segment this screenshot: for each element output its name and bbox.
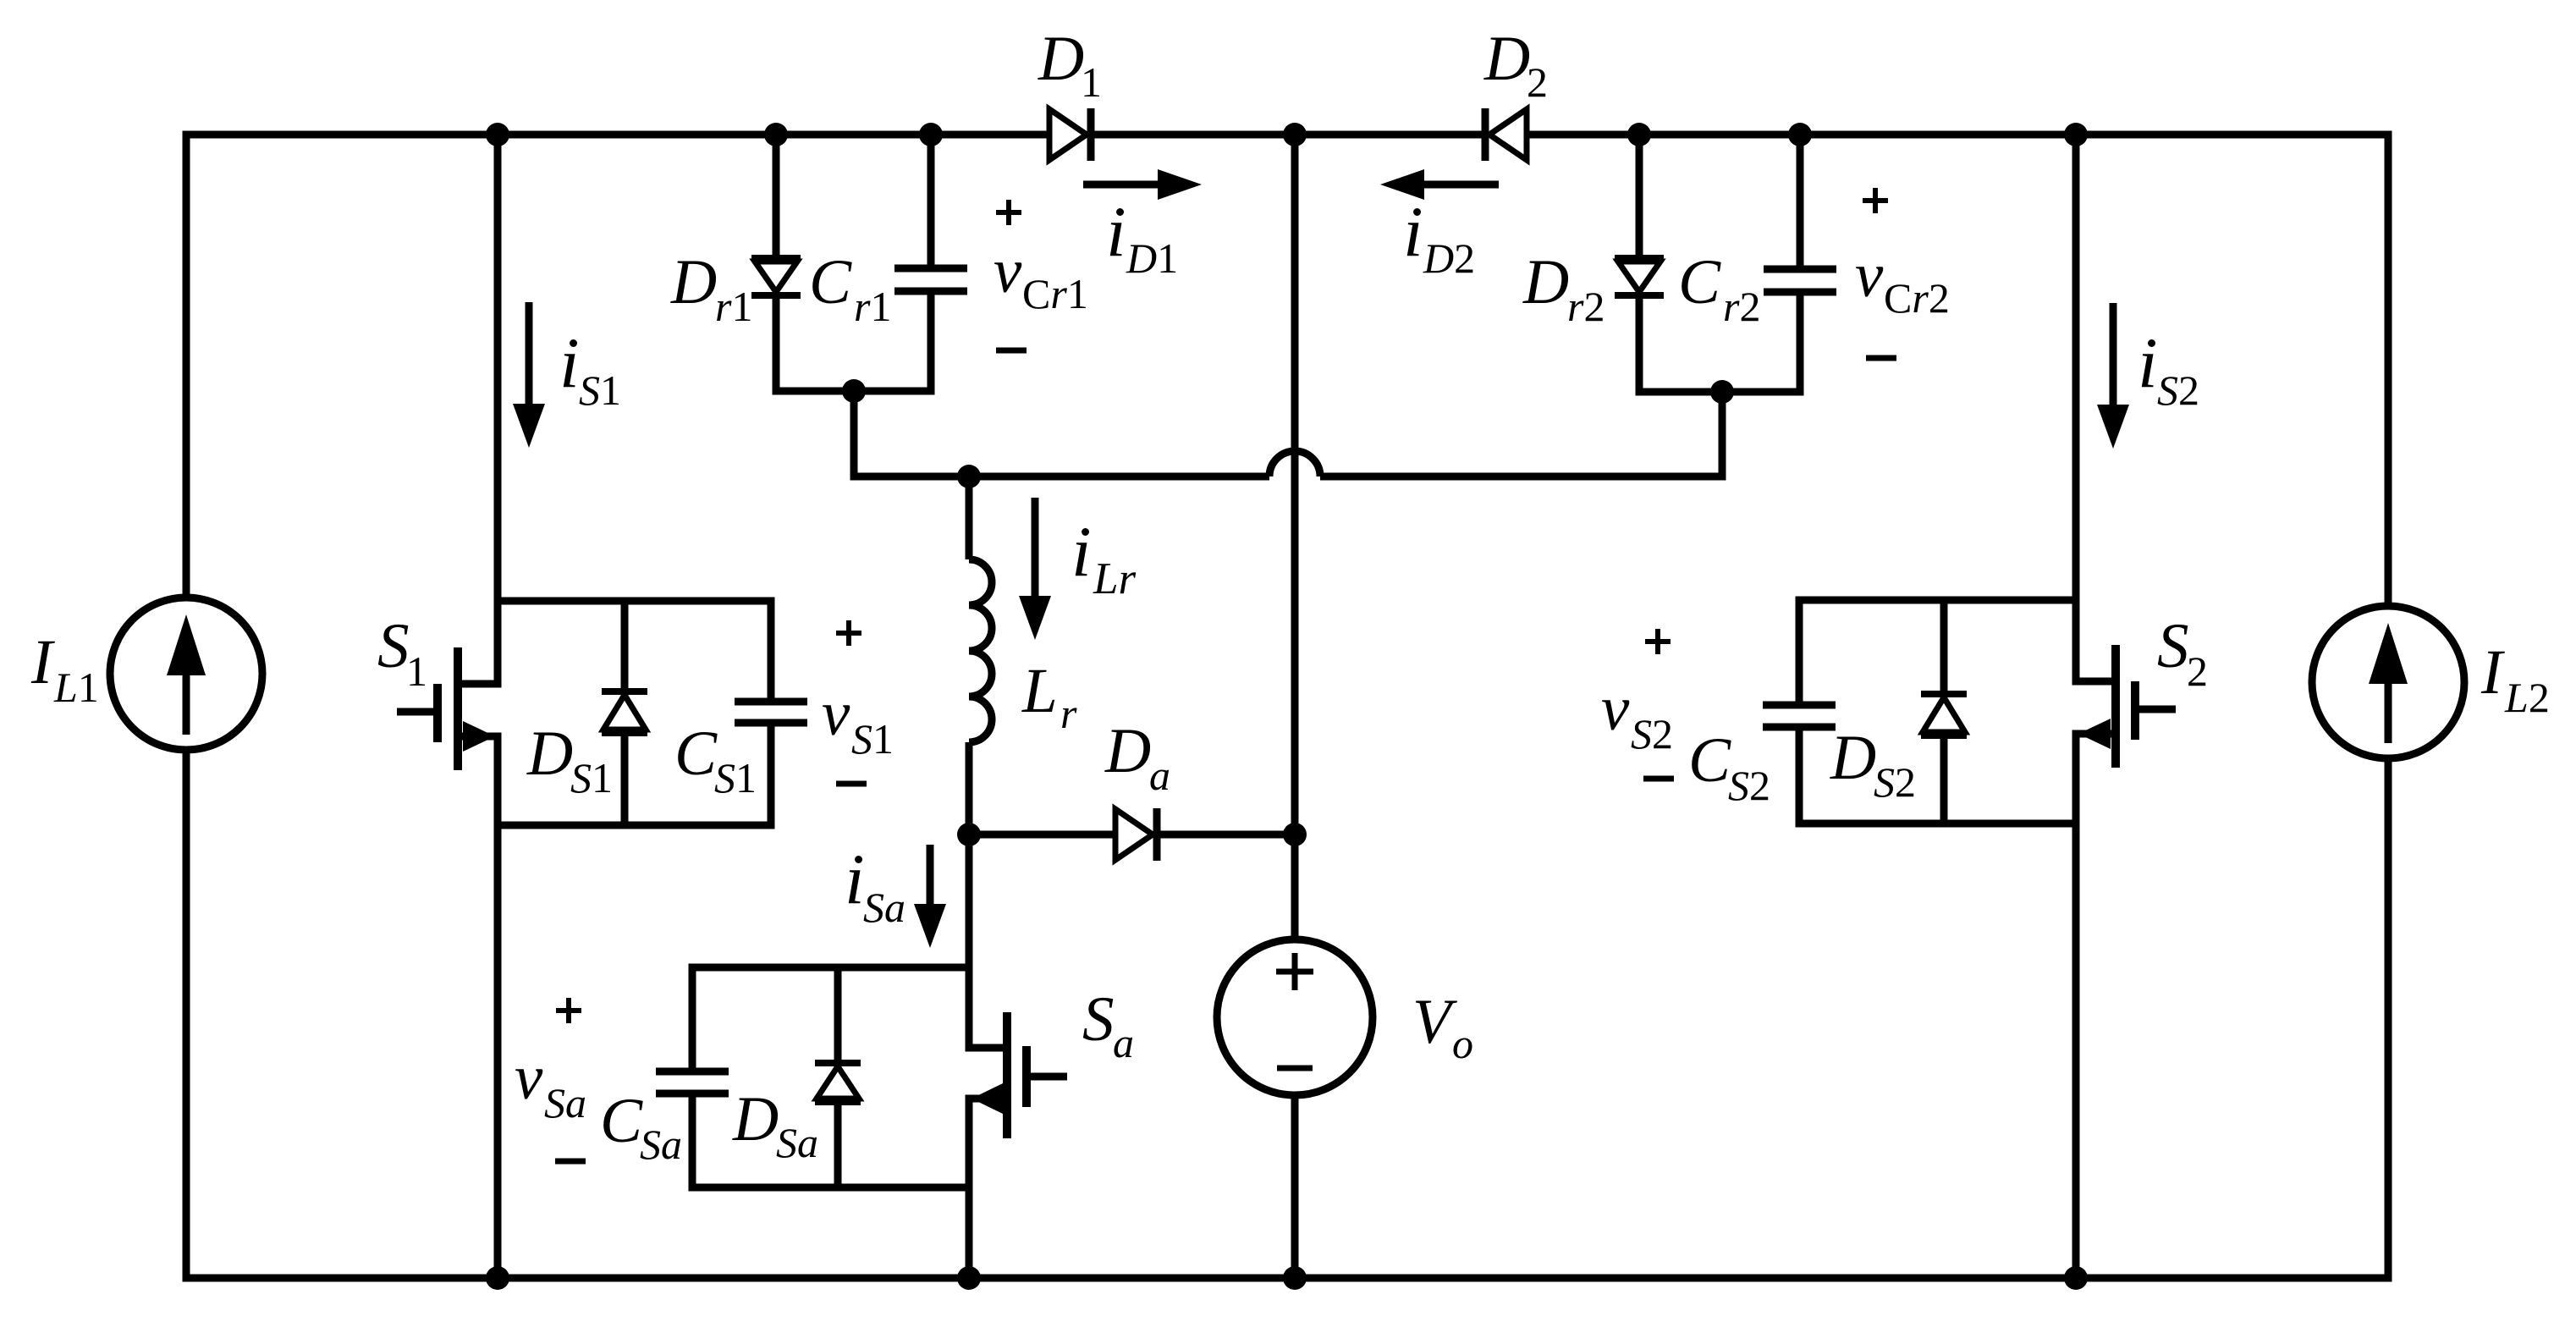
wire hop over center <box>1269 451 1320 476</box>
svg-text:D: D <box>1483 24 1530 94</box>
node Dr1 top <box>764 123 788 146</box>
svg-text:D: D <box>1830 723 1876 793</box>
wire DSa upper lead <box>834 967 842 1063</box>
node Dr2 top <box>1627 123 1651 146</box>
arrow inside I_L2 <box>2385 684 2392 743</box>
svg-text:r2: r2 <box>1723 283 1760 330</box>
wire Cr1 upper lead <box>927 135 935 268</box>
svg-text:i: i <box>1106 192 1126 272</box>
svg-text:i: i <box>2138 323 2158 403</box>
svg-text:i: i <box>559 323 580 403</box>
label vS1 minus <box>836 781 867 787</box>
wire Da anode <box>969 831 1115 839</box>
svg-text:r1: r1 <box>715 283 752 330</box>
diode Dr1 <box>751 255 801 262</box>
svg-text:r2: r2 <box>1567 283 1604 330</box>
wire Dr2 lower lead + bottom <box>1639 295 1722 392</box>
wire mid horizontal left <box>969 473 1269 481</box>
current source I_L2 <box>2312 606 2464 758</box>
wire top rail right + right edge <box>1527 135 2388 606</box>
wire CS1 lower lead + box bottom <box>498 723 771 825</box>
svg-text:1: 1 <box>1081 58 1102 106</box>
wire Sa drain rail <box>969 834 1007 1048</box>
label vS2 plus <box>1645 639 1671 644</box>
svg-text:S1: S1 <box>579 366 621 414</box>
node Da left junction <box>957 823 981 846</box>
inductor Lr <box>969 559 992 742</box>
svg-text:C: C <box>1688 725 1731 796</box>
capacitor CS2 <box>1763 702 1836 709</box>
svg-text:C: C <box>809 247 852 317</box>
svg-text:L: L <box>1021 656 1058 726</box>
wire bottom rail + outer returns <box>186 750 2388 1278</box>
svg-text:i: i <box>1071 512 1092 592</box>
arrow i_Lr <box>1032 498 1039 596</box>
svg-text:r: r <box>1060 690 1077 737</box>
transistor S1 (MOSFET) <box>454 647 462 770</box>
diode D1 <box>1049 109 1087 160</box>
svg-text:S1: S1 <box>851 715 894 763</box>
svg-text:D: D <box>1104 716 1151 786</box>
node S2 bottom <box>2064 1266 2088 1290</box>
svg-text:C: C <box>674 719 718 789</box>
wire DS2 upper lead <box>1940 600 1948 694</box>
Vo minus <box>1277 1066 1313 1071</box>
svg-text:2: 2 <box>2187 647 2208 695</box>
label vSa minus <box>555 1159 586 1165</box>
svg-text:D2: D2 <box>1423 234 1475 282</box>
svg-text:D: D <box>1038 24 1084 94</box>
label vCr2 minus <box>1866 355 1896 361</box>
svg-text:Sa: Sa <box>863 884 905 931</box>
node center top <box>1283 123 1307 146</box>
svg-text:i: i <box>1403 192 1423 272</box>
svg-text:r1: r1 <box>854 283 891 330</box>
wire Sa source rail <box>969 1099 1007 1278</box>
wire Dr2 upper lead <box>1636 135 1643 258</box>
svg-text:D1: D1 <box>1126 234 1178 282</box>
arrow inside I_L1 <box>183 675 190 735</box>
wire CS2/DS2 box top + CS2 upper lead <box>1799 600 2076 705</box>
capacitor Cr2 <box>1764 266 1836 273</box>
diode DS1 <box>602 688 647 695</box>
transistor S2 (MOSFET) <box>2111 645 2120 768</box>
svg-text:D: D <box>732 1084 779 1154</box>
diode Da <box>1115 809 1153 860</box>
wire S1 source rail <box>458 736 498 1278</box>
svg-text:S: S <box>2157 611 2189 681</box>
svg-text:v: v <box>1855 240 1884 311</box>
diode Dr2 <box>1615 255 1664 262</box>
diode DSa <box>815 1060 861 1066</box>
svg-text:S1: S1 <box>570 754 613 801</box>
svg-text:S: S <box>1082 984 1115 1055</box>
current source I_L1 <box>110 598 262 750</box>
svg-text:S2: S2 <box>1631 710 1673 757</box>
svg-text:S2: S2 <box>1874 758 1916 806</box>
arrow i_D2 <box>1424 181 1499 189</box>
diode D2 <box>1489 109 1527 160</box>
svg-text:Lr: Lr <box>1093 554 1136 603</box>
svg-text:1: 1 <box>406 647 427 695</box>
svg-text:i: i <box>845 840 865 919</box>
capacitor Cr1 <box>894 265 967 273</box>
wire DS1 upper lead <box>621 601 629 691</box>
arrow i_Sa <box>927 845 934 904</box>
svg-text:2: 2 <box>1527 58 1548 106</box>
node Da right junction <box>1283 823 1307 846</box>
label vCr1 plus <box>996 210 1021 215</box>
node S1 top <box>486 123 509 146</box>
svg-text:v: v <box>1601 674 1630 744</box>
wire Dr1 upper lead <box>773 135 780 258</box>
wire junction drop right <box>1719 392 1726 476</box>
svg-text:D: D <box>526 719 573 789</box>
diode DS2 <box>1921 691 1967 697</box>
svg-text:L1: L1 <box>53 664 99 711</box>
node S2 top <box>2064 123 2088 146</box>
wire DSa lower lead <box>834 1102 842 1187</box>
label vS1 plus <box>836 631 861 636</box>
svg-text:Sa: Sa <box>776 1119 818 1166</box>
wire S2 drain rail <box>2076 135 2116 681</box>
wire top rail middle <box>1092 131 1485 139</box>
svg-text:Cr2: Cr2 <box>1884 274 1950 322</box>
svg-text:a: a <box>1113 1019 1134 1066</box>
wire Da cathode <box>1157 831 1295 839</box>
wire CS2 lower lead + box bottom <box>1799 727 2076 823</box>
node Dr1/Cr1 junction <box>842 379 866 403</box>
svg-text:S2: S2 <box>1728 762 1770 809</box>
svg-text:Sa: Sa <box>640 1121 682 1168</box>
svg-text:S1: S1 <box>714 754 757 801</box>
node center bottom <box>1283 1266 1307 1290</box>
Vo plus <box>1276 969 1313 975</box>
wire Lr lower lead <box>966 742 973 834</box>
wire CSa/DSa box top + CSa upper lead <box>692 967 969 1071</box>
svg-text:a: a <box>1149 752 1170 799</box>
svg-text:L2: L2 <box>2504 674 2550 721</box>
arrow i_S1 <box>526 302 533 404</box>
node S1 bottom <box>486 1266 509 1290</box>
svg-text:I: I <box>30 627 55 697</box>
svg-text:D: D <box>670 247 717 317</box>
wire Cr2 lower lead + bottom <box>1722 292 1800 392</box>
node Lr top junction <box>957 465 981 488</box>
wire Cr1 lower lead + bottom <box>854 291 931 391</box>
label vS2 minus <box>1643 776 1674 782</box>
arrow i_S2 <box>2110 303 2117 405</box>
capacitor CSa <box>656 1068 729 1076</box>
node Cr1 top <box>919 123 943 146</box>
node Dr2/Cr2 junction <box>1710 380 1734 404</box>
label vSa plus <box>556 1008 581 1013</box>
svg-text:I: I <box>2480 637 2505 708</box>
wire S1 drain rail <box>458 135 498 684</box>
label vCr1 minus <box>996 348 1027 354</box>
wire CS1/DS1 box top + CS1 upper lead <box>498 601 771 702</box>
node Cr2 top <box>1788 123 1812 146</box>
wire Dr1 lower lead + bottom <box>776 295 854 391</box>
svg-text:S2: S2 <box>2157 366 2199 414</box>
wire junction drop left <box>854 391 969 476</box>
arrow i_D1 <box>1083 181 1158 189</box>
wire center vertical upper <box>1291 135 1299 939</box>
transistor Sa (MOSFET) <box>1003 1012 1011 1138</box>
svg-text:o: o <box>1452 1020 1473 1067</box>
wire Lr upper lead <box>966 476 973 559</box>
svg-text:Sa: Sa <box>544 1079 586 1126</box>
wire top rail left + left edge <box>186 135 1049 598</box>
svg-text:Cr1: Cr1 <box>1022 270 1088 317</box>
wire DS2 lower lead <box>1940 735 1948 823</box>
wire S2 source rail <box>2076 734 2116 1278</box>
svg-text:S: S <box>377 611 410 681</box>
wire DS1 lower lead <box>621 733 629 825</box>
svg-text:v: v <box>994 236 1022 306</box>
source Vo <box>1217 939 1373 1095</box>
wire mid horizontal right <box>1320 392 1722 476</box>
wire Cr2 upper lead <box>1797 135 1804 269</box>
wire CSa lower lead + box bottom <box>692 1093 969 1187</box>
wire center vertical lower <box>1291 1095 1299 1278</box>
svg-text:C: C <box>1678 247 1721 317</box>
label vCr2 plus <box>1863 198 1888 203</box>
svg-text:v: v <box>822 679 850 749</box>
capacitor CS1 <box>735 698 807 706</box>
node Sa bottom <box>957 1266 981 1290</box>
svg-text:v: v <box>515 1043 543 1113</box>
svg-text:D: D <box>1522 247 1569 317</box>
svg-text:C: C <box>600 1086 643 1156</box>
